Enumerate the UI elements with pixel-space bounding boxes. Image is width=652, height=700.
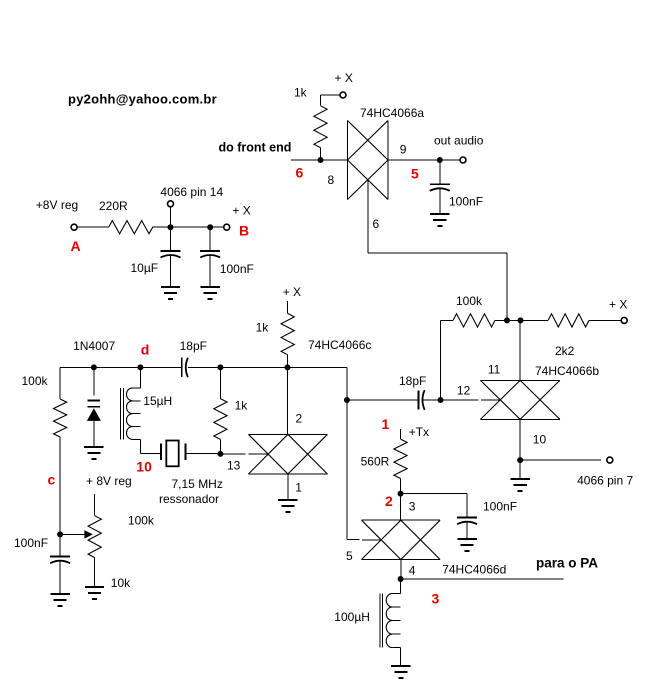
junction pin 10 node <box>517 457 523 463</box>
svg-text:+ X: + X <box>232 204 250 218</box>
svg-text:+ 8V reg: + 8V reg <box>86 474 132 488</box>
wire 100k left end down to pin 12 node <box>440 320 442 400</box>
wire pin 12 into 4066b <box>441 399 479 401</box>
svg-text:100k: 100k <box>22 374 49 388</box>
wire 220R to B <box>153 226 224 228</box>
ground (100nF 560R node) <box>457 538 476 540</box>
wire 4066c pin 1 to ground <box>287 474 289 500</box>
junction node 2 (4066d control) <box>398 491 404 497</box>
capacitor 10uF <box>170 227 172 251</box>
junction out audio <box>437 157 443 163</box>
svg-text:12: 12 <box>457 384 471 398</box>
junction node 6 <box>318 157 324 163</box>
svg-text:9: 9 <box>400 143 407 157</box>
svg-text:+ X: + X <box>283 285 301 299</box>
junction 4066c control node <box>285 364 291 370</box>
svg-text:13: 13 <box>227 459 241 473</box>
capacitor 100nF (node B) <box>209 227 211 251</box>
svg-text:100µH: 100µH <box>334 610 370 624</box>
svg-text:ressonador: ressonador <box>159 492 219 506</box>
svg-text:6: 6 <box>296 165 304 181</box>
wire pin 10 to 4066 pin 7 terminal <box>520 459 601 461</box>
svg-text:out audio: out audio <box>434 134 484 148</box>
capacitor 100nF (node c) <box>59 534 61 556</box>
svg-text:100k: 100k <box>456 294 483 308</box>
wire crystal to pin 13 node <box>186 453 221 455</box>
wire 100k left down to node c <box>59 437 61 534</box>
svg-text:3: 3 <box>432 591 440 607</box>
svg-text:10k: 10k <box>111 576 131 590</box>
ground (100uH) <box>391 665 410 667</box>
svg-text:2k2: 2k2 <box>555 344 575 358</box>
svg-text:560R: 560R <box>361 454 390 468</box>
svg-text:5: 5 <box>346 549 353 563</box>
wire node down to 4066d pin 5 <box>346 400 348 540</box>
junction node d <box>137 364 143 370</box>
svg-text:d: d <box>141 342 150 358</box>
svg-text:+8V reg: +8V reg <box>36 198 78 212</box>
svg-text:100nF: 100nF <box>483 500 517 514</box>
junction 100nF node <box>207 224 213 230</box>
junction 10uF node <box>168 224 174 230</box>
wire pin 13 into 4066c <box>220 453 245 455</box>
svg-text:A: A <box>71 238 81 254</box>
wire do front end to 4066a pin 8 <box>291 159 348 161</box>
ground (out audio) <box>430 213 449 215</box>
wire control node to 100nF <box>401 493 468 495</box>
svg-text:100nF: 100nF <box>220 262 254 276</box>
capacitor 100nF (out audio) <box>439 160 441 184</box>
svg-text:100nF: 100nF <box>14 536 48 550</box>
svg-text:do front end: do front end <box>219 141 292 155</box>
svg-text:2: 2 <box>296 412 303 426</box>
svg-text:100k: 100k <box>128 513 155 527</box>
svg-text:18pF: 18pF <box>180 339 207 353</box>
svg-text:2: 2 <box>385 493 393 509</box>
svg-text:18pF: 18pF <box>399 374 426 388</box>
svg-text:4: 4 <box>409 564 416 578</box>
svg-text:5: 5 <box>411 166 419 182</box>
wire 4066a control pin 6 down to 100k node <box>367 180 369 253</box>
ground (10uF) <box>161 286 180 288</box>
svg-text:4066 pin 7: 4066 pin 7 <box>577 474 633 488</box>
ground (100nF node B) <box>201 286 220 288</box>
svg-text:+ X: + X <box>609 298 627 312</box>
pot wiper arrow <box>84 530 92 538</box>
svg-text:11: 11 <box>488 363 501 377</box>
wire rail corner down to 18pF node <box>346 367 348 400</box>
svg-text:10µF: 10µF <box>131 261 159 275</box>
core bars 15uH <box>119 388 121 440</box>
svg-text:1k: 1k <box>235 398 249 412</box>
svg-text:100nF: 100nF <box>449 195 483 209</box>
wire 4066c control pin 2 <box>287 367 289 434</box>
wire 4066d control pin 3 <box>400 494 402 521</box>
crystal 7.15 MHz ressonador <box>160 443 162 460</box>
wire node to 2k2 <box>507 319 548 321</box>
junction 100k/control-a node <box>504 317 510 323</box>
wire node c to pot wiper <box>60 533 85 535</box>
ground (4066c pin 1) <box>278 499 297 501</box>
terminal 4066 pin 14 <box>168 201 174 207</box>
svg-text:8: 8 <box>328 173 335 187</box>
ground (pot bottom) <box>85 586 104 588</box>
svg-text:B: B <box>239 223 249 239</box>
wire 15uH to crystal <box>139 439 141 453</box>
junction node c / wiper <box>57 531 63 537</box>
junction 4066b pin 11 node <box>518 317 524 323</box>
wire 100uH to ground <box>399 648 401 667</box>
terminal A (+8V reg) <box>71 224 77 230</box>
svg-text:74HC4066c: 74HC4066c <box>308 338 371 352</box>
svg-text:74HC4066a: 74HC4066a <box>360 106 424 120</box>
ground (4066b pin 10) <box>519 460 521 479</box>
ground (100nF node c) <box>50 593 69 595</box>
svg-text:+ X: + X <box>335 71 353 85</box>
svg-text:c: c <box>48 472 56 488</box>
ground (1N4007) <box>84 446 103 448</box>
svg-text:15µH: 15µH <box>143 394 172 408</box>
svg-text:1: 1 <box>382 416 390 432</box>
svg-text:1: 1 <box>295 480 302 494</box>
junction node 3 (pin 4) <box>398 576 404 582</box>
junction pin 12 node <box>438 397 444 403</box>
svg-text:+Tx: +Tx <box>409 425 429 439</box>
core bars 100uH <box>379 593 381 647</box>
junction rail/18pF/down node <box>344 397 350 403</box>
svg-text:1N4007: 1N4007 <box>73 339 115 353</box>
svg-text:220R: 220R <box>99 199 128 213</box>
svg-text:74HC4066b: 74HC4066b <box>535 364 599 378</box>
svg-text:1k: 1k <box>256 321 270 335</box>
capacitor 100nF (560R node) <box>457 517 477 519</box>
svg-text:4066 pin 14: 4066 pin 14 <box>160 185 223 199</box>
junction pin 13 node <box>217 451 223 457</box>
wire 4066d pin 4 <box>400 560 402 580</box>
svg-text:1k: 1k <box>294 86 308 100</box>
svg-text:3: 3 <box>409 500 416 514</box>
wire 4066b pin 10 <box>519 419 521 460</box>
terminal 4066 pin 7 <box>607 457 613 463</box>
svg-text:para o PA: para o PA <box>536 556 598 571</box>
svg-text:74HC4066d: 74HC4066d <box>442 563 506 577</box>
terminal B (+X) <box>224 224 230 230</box>
wire to para o PA <box>401 578 564 580</box>
wire 4066b control pin 11 <box>519 320 521 380</box>
wire 4066a pin 9 to out audio <box>388 159 460 161</box>
terminal out audio <box>460 157 466 163</box>
svg-text:py2ohh@yahoo.com.br: py2ohh@yahoo.com.br <box>68 92 217 107</box>
svg-text:6: 6 <box>373 217 380 231</box>
svg-text:10: 10 <box>533 433 547 447</box>
terminal +X (top) <box>340 92 346 98</box>
svg-text:10: 10 <box>136 459 152 475</box>
svg-text:7,15 MHz: 7,15 MHz <box>172 477 223 491</box>
wire main rail left part <box>60 366 182 368</box>
terminal +X (right) <box>621 317 627 323</box>
